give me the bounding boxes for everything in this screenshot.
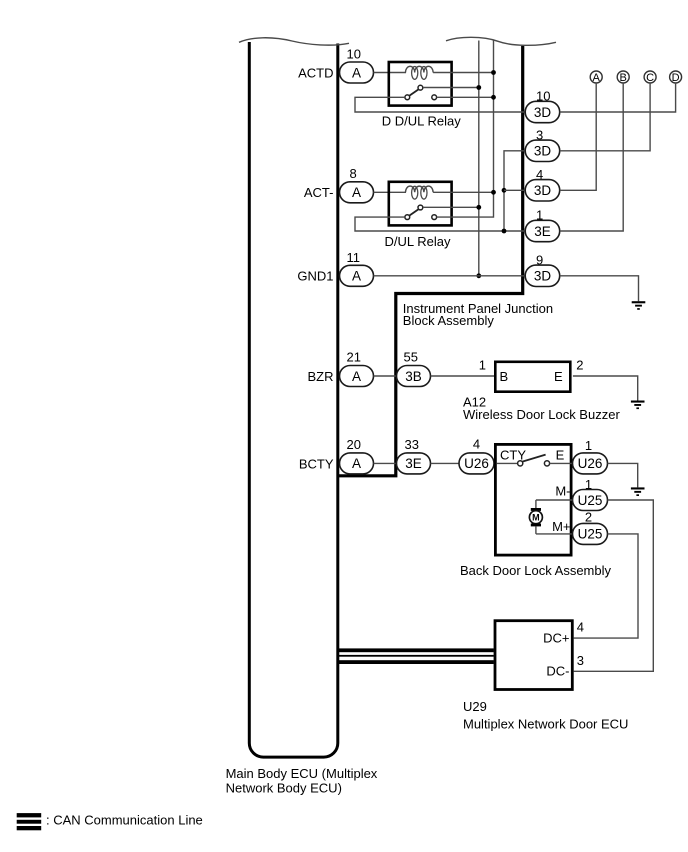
svg-text:U25: U25 xyxy=(578,527,603,542)
pin 4 of 3D xyxy=(536,167,543,182)
connector U25 pin2 xyxy=(573,523,608,544)
label M- xyxy=(555,484,570,499)
label ACTD xyxy=(298,65,333,80)
pin 20 xyxy=(347,437,361,452)
courtesy switch xyxy=(497,455,573,466)
wire A to relay2 coil xyxy=(374,191,407,193)
label M+ xyxy=(552,519,570,534)
wire 3D pin10 to D xyxy=(560,83,676,112)
connector U26 pin4 xyxy=(459,453,494,474)
svg-text:Block Assembly: Block Assembly xyxy=(403,313,495,328)
ground for U26 xyxy=(631,487,645,496)
svg-text:3D: 3D xyxy=(534,269,552,284)
svg-text:A: A xyxy=(352,269,361,284)
svg-text:D/UL Relay: D/UL Relay xyxy=(385,234,451,249)
svg-text:3D: 3D xyxy=(534,105,552,120)
circled letter A xyxy=(590,71,602,84)
wire 3B to buzzer xyxy=(431,375,496,377)
svg-text:21: 21 xyxy=(347,350,361,365)
svg-text:M-: M- xyxy=(555,484,570,499)
junction dot relay1 contact xyxy=(491,95,496,100)
svg-text:M: M xyxy=(532,513,540,523)
svg-text:11: 11 xyxy=(347,250,361,265)
junction dot x504 3D pin4 xyxy=(502,188,507,193)
label E inside lock xyxy=(556,447,565,462)
connector A pin21 BZR xyxy=(340,366,374,387)
label ACT- xyxy=(304,185,334,200)
svg-text:A: A xyxy=(352,369,361,384)
wire A to 3B xyxy=(374,375,397,377)
svg-text:3: 3 xyxy=(577,653,584,668)
relay1 switch xyxy=(405,85,437,99)
svg-text:Network Body ECU): Network Body ECU) xyxy=(226,781,342,796)
svg-text:A: A xyxy=(352,185,361,200)
svg-text:: CAN Communication Line: : CAN Communication Line xyxy=(46,813,203,828)
svg-text:Multiplex Network Door ECU: Multiplex Network Door ECU xyxy=(463,717,628,732)
connector 3D pin9 xyxy=(525,265,560,286)
label D/UL Relay xyxy=(385,234,451,249)
label GND1 xyxy=(297,269,333,284)
connector U25 pin1 xyxy=(573,490,608,511)
svg-text:B: B xyxy=(620,72,627,84)
svg-text:A: A xyxy=(593,72,601,84)
wire relay1 lever out xyxy=(423,87,479,89)
wire relay1 contact out xyxy=(437,96,494,98)
wire buzzer E to ground xyxy=(573,376,638,401)
svg-text:DC+: DC+ xyxy=(543,630,569,645)
Main Body ECU break wavy top xyxy=(239,38,349,45)
junction block break wavy top xyxy=(446,37,556,45)
wire 3D pin9 to ground xyxy=(560,276,639,301)
relay1 coil xyxy=(406,66,453,79)
svg-text:3D: 3D xyxy=(534,144,552,159)
Instrument Panel Junction Block outline xyxy=(339,46,523,476)
relay D D/UL Relay box xyxy=(389,62,452,106)
svg-text:U26: U26 xyxy=(464,456,489,471)
label CTY xyxy=(500,447,526,462)
connector 3D pin3 xyxy=(525,140,560,161)
circled letter B xyxy=(617,71,629,84)
back door lock assembly box xyxy=(495,444,571,555)
svg-text:55: 55 xyxy=(404,350,418,365)
svg-text:ACT-: ACT- xyxy=(304,185,334,200)
svg-text:E: E xyxy=(554,369,563,384)
wire A to 3E xyxy=(374,462,397,464)
pin 10 of 3D xyxy=(536,89,550,104)
wire 3E to U26 xyxy=(431,462,460,464)
junction dot x504 3E row xyxy=(502,229,507,234)
wire 3D pin3 left elbow down x504 xyxy=(504,151,525,231)
label A12 Wireless Door Lock Buzzer xyxy=(463,395,620,422)
svg-text:DC-: DC- xyxy=(546,663,569,678)
wire U25 pin1 to DC- xyxy=(574,500,654,671)
wire 3D pin3 to C xyxy=(560,83,650,151)
motor M xyxy=(529,500,572,534)
pin 33 xyxy=(405,437,419,452)
relay D/UL Relay box xyxy=(389,182,452,226)
pin 2 of buzzer xyxy=(576,358,583,373)
svg-text:U29: U29 xyxy=(463,699,487,714)
relay2 coil xyxy=(406,186,453,199)
pin 55 xyxy=(404,350,418,365)
vertical trunk wire x479 xyxy=(478,41,480,276)
wire 3D pin4 to A xyxy=(560,83,597,190)
wire relay1 coil out to vertical xyxy=(453,72,494,74)
label BZR xyxy=(308,369,334,384)
relay2 switch xyxy=(405,205,437,219)
pin 1 of buzzer xyxy=(479,358,486,373)
pin 3 of 3D xyxy=(536,127,543,142)
svg-text:U25: U25 xyxy=(578,493,603,508)
svg-text:3B: 3B xyxy=(405,369,422,384)
circled letter C xyxy=(644,71,656,84)
label BCTY xyxy=(299,456,334,471)
pin 4 of U26 xyxy=(473,436,480,451)
svg-text:8: 8 xyxy=(350,166,357,181)
connector 3E pin1 xyxy=(525,220,560,241)
junction dot relay2 lever xyxy=(476,205,481,210)
label D D/UL Relay xyxy=(382,114,461,129)
svg-text:M+: M+ xyxy=(552,519,570,534)
svg-text:20: 20 xyxy=(347,437,361,452)
connector A pin20 BCTY xyxy=(340,453,374,474)
wire relay2 lever out xyxy=(423,206,479,208)
svg-text:CTY: CTY xyxy=(500,447,526,462)
svg-text:ACTD: ACTD xyxy=(298,65,333,80)
svg-text:10: 10 xyxy=(347,46,361,61)
pin 10 xyxy=(347,46,361,61)
label Instrument Panel Junction Block Assembly xyxy=(403,301,553,328)
wire stub x504 to 3D pin4 xyxy=(504,189,525,191)
wire relay2 contact out elbow from vertical xyxy=(437,41,494,218)
svg-text:Main Body ECU (Multiplex: Main Body ECU (Multiplex xyxy=(226,766,378,781)
legend text CAN Communication Line xyxy=(46,813,203,828)
svg-text:A: A xyxy=(352,456,361,471)
pin 2 of U25 xyxy=(585,510,592,525)
label Main Body ECU xyxy=(226,766,378,795)
svg-text:Back Door Lock Assembly: Back Door Lock Assembly xyxy=(460,563,612,578)
connector 3D pin4 xyxy=(525,180,560,201)
pin 8 xyxy=(350,166,357,181)
wire relay1 common to 3D pin10 xyxy=(355,97,525,112)
junction dot gnd row xyxy=(476,273,481,278)
wire U25 pin2 to DC+ xyxy=(574,534,638,638)
pin 11 xyxy=(347,250,361,265)
junction dot relay1 coil xyxy=(491,70,496,75)
svg-text:B: B xyxy=(500,369,509,384)
svg-text:1: 1 xyxy=(585,438,592,453)
svg-text:2: 2 xyxy=(585,510,592,525)
svg-text:C: C xyxy=(646,72,654,84)
svg-text:D D/UL Relay: D D/UL Relay xyxy=(382,114,461,129)
svg-text:BCTY: BCTY xyxy=(299,456,334,471)
pin 21 xyxy=(347,350,361,365)
svg-text:4: 4 xyxy=(473,436,480,451)
junction dot relay1 lever xyxy=(476,85,481,90)
connector 3B pin55 xyxy=(397,366,431,387)
pin 1 of U25 xyxy=(585,477,592,492)
wire U26 pin1 to ground xyxy=(608,463,638,487)
connector U26 pin1 xyxy=(573,453,608,474)
U29 multiplex network door ECU box xyxy=(495,621,572,690)
svg-text:33: 33 xyxy=(405,437,419,452)
wire GND1 to 3D pin9 xyxy=(374,275,526,277)
wire relay2 common to 3E pin1 xyxy=(355,217,525,231)
svg-text:2: 2 xyxy=(576,358,583,373)
wire A to relay1 coil xyxy=(374,72,407,74)
connector 3E pin33 xyxy=(397,453,431,474)
label Back Door Lock Assembly xyxy=(460,563,612,578)
connector 3D pin10 xyxy=(525,101,560,122)
ground for buzzer xyxy=(631,401,645,410)
svg-text:A: A xyxy=(352,65,361,80)
connector A pin11 GND1 xyxy=(340,265,374,286)
svg-text:Wireless Door Lock Buzzer: Wireless Door Lock Buzzer xyxy=(463,407,620,422)
wire 3E pin1 to B xyxy=(560,83,624,231)
svg-text:3E: 3E xyxy=(405,456,422,471)
pin 3 of U29 xyxy=(577,653,584,668)
svg-text:3D: 3D xyxy=(534,183,552,198)
junction dot relay2 coil xyxy=(491,190,496,195)
svg-text:D: D xyxy=(672,72,680,84)
ground for 3D pin9 xyxy=(632,301,646,310)
connector A pin8 ACT- xyxy=(340,182,374,203)
connector A pin10 ACTD xyxy=(340,62,374,83)
label U29 Multiplex Network Door ECU xyxy=(463,699,628,732)
svg-text:4: 4 xyxy=(577,620,584,635)
svg-text:BZR: BZR xyxy=(308,369,334,384)
pin 1 of U26 xyxy=(585,438,592,453)
svg-text:GND1: GND1 xyxy=(297,269,333,284)
Main Body ECU outline xyxy=(249,42,338,757)
buzzer A12 box xyxy=(495,362,570,392)
svg-text:U26: U26 xyxy=(578,456,603,471)
CAN communication line trunk xyxy=(339,648,494,664)
pin 1 of 3E xyxy=(536,208,543,223)
circled letter D xyxy=(670,71,682,84)
legend CAN symbol xyxy=(17,813,42,830)
svg-text:3E: 3E xyxy=(534,224,551,239)
svg-text:E: E xyxy=(556,447,565,462)
svg-text:1: 1 xyxy=(479,358,486,373)
pin 9 of 3D xyxy=(536,252,543,267)
wire relay2 coil out to vertical xyxy=(453,191,494,193)
pin 4 of U29 xyxy=(577,620,584,635)
